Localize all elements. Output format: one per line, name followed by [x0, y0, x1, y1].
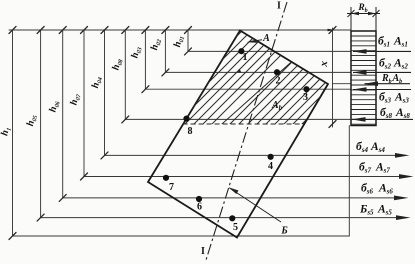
svg-text:3: 3 [303, 92, 308, 103]
svg-text:4: 4 [268, 161, 273, 172]
wire rebar6 level line [63, 197, 401, 199]
rebar 7 [163, 175, 169, 181]
arrow sigma s1 [353, 49, 367, 54]
rebar 1 [238, 48, 244, 54]
wire leader B [230, 188, 282, 222]
rebar 6 [196, 196, 202, 202]
dimension line h06 vertical [62, 30, 64, 198]
dimension line h07 vertical [83, 30, 85, 177]
arrow tension s4 [395, 153, 410, 158]
dimension line h01 vertical [187, 30, 189, 51]
dimension line h04 vertical [104, 30, 106, 155]
rebar 5 [229, 215, 235, 221]
concrete section rectangle rotated [148, 31, 328, 238]
stress block rectangle [351, 31, 376, 126]
dimension line h1 vertical [12, 30, 14, 236]
arrow leader A [247, 39, 258, 42]
wire rebar3 level line [145, 88, 351, 90]
svg-text:7: 7 [169, 182, 174, 193]
dimension line h03 vertical [144, 30, 146, 89]
svg-text:8: 8 [188, 126, 193, 137]
wire rebar7 level line [84, 176, 406, 178]
wire h1 bottom level line [13, 235, 350, 237]
section line I-I dash-dot [206, 2, 287, 260]
dimension line x vertical [332, 28, 334, 127]
svg-text:2: 2 [276, 76, 281, 87]
svg-text:1: 1 [243, 52, 248, 63]
wire leader A [249, 40, 262, 42]
arrow sigma s8 [352, 117, 366, 122]
dimension Rb [347, 7, 380, 31]
svg-text:I: I [201, 246, 205, 257]
node mark on line 2 below corner A [238, 69, 242, 73]
arrow leader B [229, 187, 239, 194]
svg-text:RbAb: RbAb [381, 73, 402, 85]
rebar 3 [303, 86, 309, 92]
wire rebar8 level line [125, 118, 351, 120]
hatching of compression zone Ab [150, 0, 345, 132]
dimension line h02 vertical [164, 30, 166, 72]
arrow Rb Ab [364, 81, 378, 86]
arrow sigma s2 [353, 70, 367, 75]
arrow top line right end [328, 29, 337, 32]
svg-text:I: I [277, 1, 281, 12]
svg-text:Б: Б [280, 226, 288, 237]
arrow tension s6 [394, 196, 409, 201]
wire rebar4 level line [105, 154, 403, 156]
svg-text:6: 6 [197, 202, 202, 213]
rebar 8 [183, 116, 189, 122]
wire rebar5 level line [41, 217, 403, 219]
neutral axis dashed line [183, 123, 304, 125]
wire top reference line [9, 29, 351, 31]
svg-text:5: 5 [233, 222, 238, 233]
tick marks at dimension junctions [9, 27, 336, 240]
arrow tension s7 [399, 174, 414, 179]
svg-text:А: А [262, 33, 270, 44]
rebar 2 [274, 69, 280, 75]
wire rebar2 level line [165, 71, 351, 73]
dimension line h08 vertical [124, 30, 126, 119]
arrow sigma s3 [353, 87, 367, 92]
wire rebar1 level line [188, 50, 351, 52]
wire right vertical zero line [348, 126, 350, 237]
wire RbAb level line [333, 83, 352, 85]
rebar 4 [268, 154, 274, 160]
arrow tension s5 [396, 215, 411, 220]
dimension line h05 vertical [40, 30, 42, 218]
stress block horizontal hatch [351, 36, 376, 124]
compression force arrows [352, 51, 413, 119]
